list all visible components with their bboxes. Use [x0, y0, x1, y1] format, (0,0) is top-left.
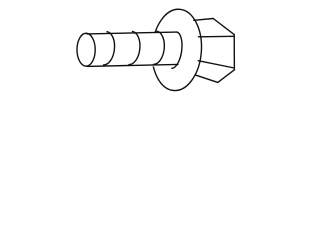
shaft-flange junction arc [172, 32, 182, 68]
hex facet line lower [198, 61, 234, 68]
shaft top line [87, 32, 177, 34]
flange ellipse [149, 8, 204, 93]
bolt line drawing (hex flange bolt, side view) [0, 0, 300, 100]
hex facet line upper [198, 35, 234, 38]
bolt tip ellipse [77, 33, 95, 66]
thread arc 1 [104, 32, 115, 65]
thread arc 2 [129, 31, 140, 64]
shaft occlusion mask [87, 32, 181, 68]
thread arc 3 [153, 31, 164, 64]
hex head bottom chamfer [218, 70, 235, 83]
shaft bottom line [87, 64, 178, 66]
hex head top edge [194, 19, 213, 21]
hex head bottom edge [195, 75, 218, 83]
hex head right edge [233, 35, 235, 70]
hex head top chamfer [213, 19, 234, 35]
